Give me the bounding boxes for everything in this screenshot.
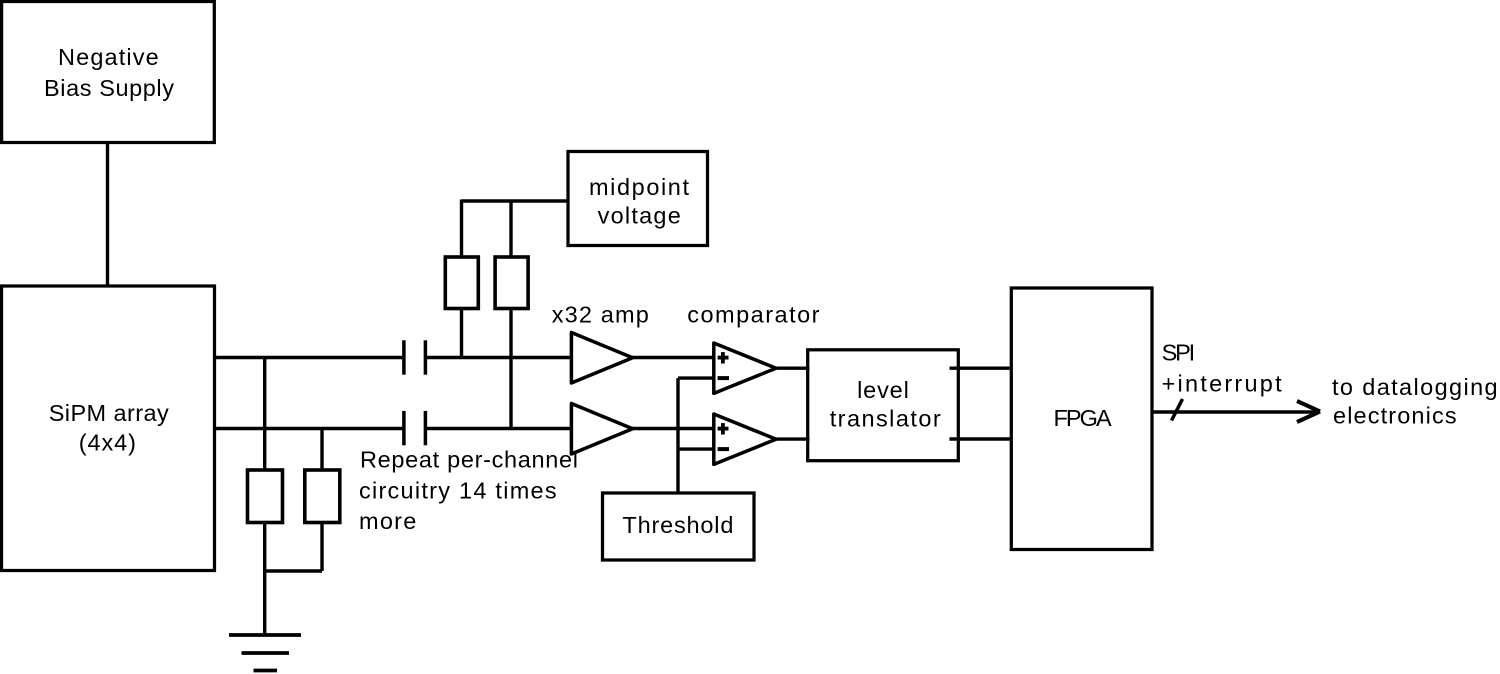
block: Negative Bias Supply [2, 2, 215, 143]
comparator U2 [714, 414, 776, 464]
resistor R1 [248, 470, 283, 523]
svg-text:to datalogging: to datalogging [1332, 374, 1498, 400]
wire: A1 output to comparator U1 [632, 356, 714, 359]
wire: level translator to FPGA lower [950, 437, 1013, 440]
resistor R3 [445, 257, 478, 309]
capacitor C1 [404, 340, 426, 374]
op-amp A1 [571, 333, 632, 384]
wire: SiPM lower output to C2 [214, 427, 403, 430]
svg-text:voltage: voltage [598, 203, 681, 229]
svg-text:Threshold: Threshold [622, 512, 733, 538]
bus slash [1172, 399, 1183, 421]
label: to datalogging electronics [1332, 374, 1498, 429]
wire: threshold vertical [676, 378, 679, 493]
label: Repeat per-channel circuitry 14 times more [359, 446, 578, 534]
wire: U1 output to level translator [776, 367, 810, 370]
wire: upper rail down to R1 [263, 358, 266, 471]
block: FPGA [1011, 288, 1152, 550]
block: Threshold [603, 493, 755, 560]
op-amp A2 [571, 404, 632, 455]
svg-text:more: more [359, 508, 416, 534]
svg-text:+interrupt: +interrupt [1162, 371, 1282, 397]
svg-text:translator: translator [830, 405, 941, 431]
wire: C2 to amp A2 [427, 427, 573, 430]
wire: R1 bottom to ground [263, 522, 266, 635]
wire: FPGA output arrow [1153, 401, 1321, 422]
wire: lower rail down to R2 [320, 429, 323, 471]
svg-text:SPI: SPI [1162, 340, 1196, 366]
wire: U2 output to level translator [776, 437, 810, 440]
wire: bias supply to SiPM array [106, 143, 109, 286]
svg-text:Repeat per-channel: Repeat per-channel [360, 446, 578, 472]
wire: down to R4 top [509, 201, 512, 257]
svg-text:electronics: electronics [1333, 403, 1457, 429]
wire: level translator to FPGA upper [950, 367, 1013, 370]
resistor R4 [495, 257, 528, 309]
wire: R2 bottom down [320, 522, 323, 571]
wire: R4 bottom to lower rail [509, 308, 512, 429]
wire: joining bar R2 to R1 stem [265, 569, 322, 572]
wire: down to R3 top [460, 200, 463, 258]
svg-text:(4x4): (4x4) [79, 430, 136, 456]
block: SiPM array (4x4) [2, 286, 215, 571]
svg-text:Bias Supply: Bias Supply [44, 75, 174, 101]
ground [229, 635, 301, 671]
block: midpoint voltage [568, 152, 708, 246]
resistor R2 [305, 470, 340, 523]
comparator U1 [714, 343, 776, 393]
svg-text:FPGA: FPGA [1054, 405, 1113, 431]
svg-text:level: level [857, 377, 909, 403]
wire: midpoint voltage feed [462, 199, 570, 202]
svg-text:midpoint: midpoint [589, 174, 689, 200]
svg-text:Negative: Negative [58, 44, 159, 70]
capacitor C2 [404, 411, 426, 445]
wire: SiPM upper output to C1 [214, 356, 403, 359]
svg-text:comparator: comparator [687, 302, 819, 328]
label: SPI +interrupt [1162, 340, 1282, 397]
svg-text:x32 amp: x32 amp [552, 302, 649, 328]
wire: R3 bottom to upper rail [460, 308, 463, 358]
block: level translator [808, 350, 959, 461]
svg-text:SiPM array: SiPM array [49, 400, 169, 426]
wire: to U2 minus input [678, 447, 713, 450]
wire: A2 output to comparator U2 [632, 427, 714, 430]
wire: to U1 minus input [678, 376, 713, 379]
wire: C1 to amp A1 [427, 356, 573, 359]
